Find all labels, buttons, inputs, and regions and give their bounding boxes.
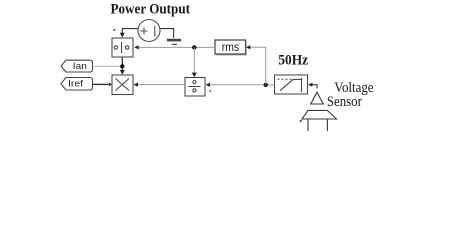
- svg-text:Iref: Iref: [68, 79, 83, 90]
- svg-text:Ian: Ian: [73, 61, 87, 72]
- wire measurement bottom to product junction: [121, 57, 123, 71]
- wire Ian to junction A: [93, 65, 121, 67]
- voltage source V1: [138, 20, 160, 42]
- tiny mark near divide block: [209, 90, 211, 92]
- small arrow at sensor left: [300, 120, 303, 123]
- voltage sensor triangle: [311, 92, 324, 104]
- From tag Ian: [61, 60, 93, 72]
- wire filter output to node C: [266, 84, 275, 86]
- svg-text:50Hz: 50Hz: [278, 52, 308, 68]
- junction node A: [120, 64, 124, 68]
- wire node C to divide right input: [210, 84, 264, 86]
- voltage sensor body (trapezoid with legs): [302, 110, 337, 131]
- divide block: [185, 78, 205, 97]
- wire node C up to rms input (right side): [250, 47, 266, 85]
- ground: [167, 39, 181, 45]
- From tag Iref: [61, 78, 93, 91]
- wire divide output to product right input: [138, 84, 186, 86]
- 50Hz filter block: [275, 75, 308, 94]
- wire voltage sensor to filter input: [312, 85, 317, 89]
- svg-text:Power Output: Power Output: [111, 2, 191, 18]
- junction node C: [264, 83, 268, 87]
- rms block: [215, 40, 246, 55]
- svg-text:rms: rms: [222, 40, 239, 54]
- measurement block (o|o): [112, 38, 133, 57]
- wire node B down to divide top input: [193, 47, 195, 73]
- svg-text:Sensor: Sensor: [327, 94, 362, 110]
- wire V1 left terminal to measurement block top: [122, 29, 138, 34]
- product block X: [112, 75, 133, 95]
- polarity dot: [113, 29, 115, 31]
- wire V1 right terminal to ground: [160, 29, 173, 38]
- wire Iref to product block: [93, 83, 109, 85]
- wire rms output to node B and measurement block right input: [139, 46, 216, 48]
- junction node B: [192, 45, 196, 49]
